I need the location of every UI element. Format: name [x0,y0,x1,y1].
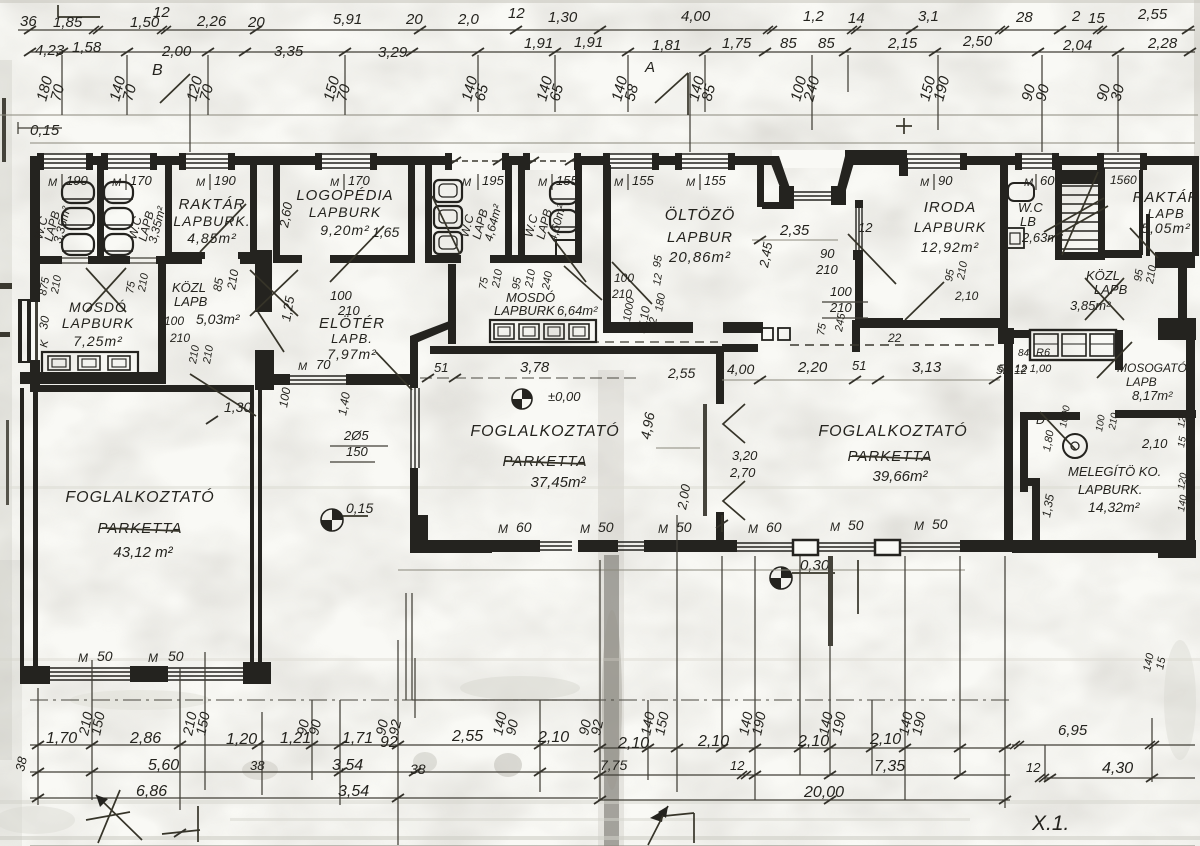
MELEGITO boiler circle [1063,434,1087,458]
kitchen counter with 3 glazed boxes [1030,330,1116,360]
left room south windows M50 [50,667,130,669]
top vertical extension lines [61,55,63,115]
svg-text:2,20: 2,20 [797,359,828,376]
row1 partition LOGOPEDIA west [273,165,280,260]
stair break diagonals [1048,206,1108,240]
door swing RAKTAR [200,204,246,252]
svg-text:60: 60 [766,519,782,535]
row1 partition WC2/RAKTAR [165,165,172,263]
svg-text:85: 85 [818,35,835,52]
svg-text:FOGLALKOZTATÓ: FOGLALKOZTATÓ [470,421,619,440]
southwest corner block [20,666,50,684]
svg-text:90: 90 [820,246,835,261]
MELEGITO west wall [1020,412,1028,492]
svg-text:2,55: 2,55 [1137,6,1168,23]
svg-text:5K 12: 5K 12 [996,363,1028,377]
radiator boxes near entrance [762,328,773,340]
svg-text:1,91: 1,91 [524,35,553,52]
door swing entrance bay [848,234,896,284]
door swing LOGOPEDIA [330,226,384,282]
row A right 6,95 [1012,744,1195,746]
row1 partition WC3 west [425,165,432,260]
svg-text:2,63m²: 2,63m² [1021,230,1063,245]
svg-text:12: 12 [651,272,665,286]
door sill lines WC1 WC2 [62,257,88,259]
svg-text:FOGLALKOZTATÓ: FOGLALKOZTATÓ [818,421,967,440]
accordion door chevron 1 [723,404,745,443]
svg-text:M: M [580,522,590,536]
svg-text:KÖZL: KÖZL [172,280,206,295]
svg-text:4,85m²: 4,85m² [187,230,237,246]
svg-text:LAPBURK: LAPBURK [309,204,381,220]
row1 partition WC4 east [575,165,582,260]
east outer wall lower [1186,338,1195,546]
IRODA east wall [1000,165,1008,340]
svg-text:6,95: 6,95 [1058,722,1088,739]
svg-text:RAKTÁR: RAKTÁR [179,196,246,213]
svg-text:M: M [830,520,840,534]
svg-text:6,64m²: 6,64m² [557,303,598,318]
svg-text:30: 30 [36,315,52,331]
svg-text:M: M [462,177,472,189]
stair bottom wall [1055,252,1105,260]
svg-text:1,85: 1,85 [53,14,83,31]
svg-text:92: 92 [380,734,398,751]
stair east wall [1098,168,1105,258]
svg-text:4,00: 4,00 [681,8,711,25]
OLTOZO east wall [757,165,764,207]
section mark B with diagonal [160,74,190,103]
left room north wall [38,385,254,392]
wall under WC rooms [30,256,62,264]
svg-text:5,60: 5,60 [148,757,179,774]
row1 partition LOGOPEDIA east [408,165,415,260]
svg-text:2,26: 2,26 [196,13,227,30]
bottom center guide arrow L-shape [654,813,694,817]
entrance bay right slant wall [837,156,856,190]
scan artifact gray vertical fold streak [598,370,624,846]
svg-text:12: 12 [508,5,525,22]
svg-text:M: M [48,177,58,189]
svg-text:1,75: 1,75 [722,35,752,52]
svg-text:LOGOPÉDIA: LOGOPÉDIA [296,187,393,204]
courtyard line from left room to dim area [412,699,600,701]
row1 partition WC3/WC4 [505,165,512,260]
svg-text:M: M [538,177,548,189]
middle room NW diagonal wall [410,320,454,343]
east outer wall mid [1178,266,1187,324]
svg-text:210: 210 [815,262,838,277]
south band windows [538,541,572,543]
svg-text:X.1.: X.1. [1031,812,1069,835]
svg-text:7,25m²: 7,25m² [73,333,123,349]
svg-text:20: 20 [405,11,423,28]
svg-text:M: M [298,361,308,373]
WC3 toilets [434,180,462,202]
top wall window openings (punch white) [44,153,86,170]
bottom dash-dot line upper [30,699,1010,701]
svg-text:3,13: 3,13 [912,359,942,376]
svg-text:±0,00: ±0,00 [548,389,581,404]
svg-text:90: 90 [938,173,953,188]
svg-text:3,20: 3,20 [732,448,758,463]
svg-text:M: M [148,651,158,665]
svg-text:15: 15 [1088,10,1105,27]
svg-text:43,12 m²: 43,12 m² [113,544,173,561]
door swing ELOTER to left room [190,374,256,416]
svg-text:38: 38 [410,761,426,777]
middle room east wall lower [716,512,724,542]
svg-text:20,86m²: 20,86m² [668,249,731,266]
svg-text:210: 210 [337,303,360,318]
svg-text:2,28: 2,28 [1147,35,1178,52]
svg-text:2,10: 2,10 [954,289,979,303]
svg-text:4,23: 4,23 [35,42,65,59]
svg-text:20: 20 [247,14,265,31]
svg-text:170: 170 [130,173,152,188]
MOSDO-left east wall [158,264,166,382]
door swing MELEGITO [1040,412,1076,450]
svg-text:1,58: 1,58 [72,39,102,56]
right raktar west wall [1139,170,1143,255]
scan artifact left margin shade [0,60,12,760]
svg-text:2,55: 2,55 [451,728,483,745]
KOZL south pillar wall [255,250,272,312]
svg-text:100: 100 [614,271,634,285]
svg-text:A: A [644,59,655,76]
top dim chain row 2 line [30,51,1195,53]
top-left bracket mark [58,16,100,18]
svg-text:M: M [196,177,206,189]
left room east wall double [250,385,254,673]
entrance bay left slant wall [768,156,790,190]
svg-text:50: 50 [168,648,184,664]
svg-text:LAPBURK: LAPBURK [62,315,134,331]
svg-text:60: 60 [1040,173,1055,188]
svg-text:2,70: 2,70 [729,465,756,480]
WC-LB sink [1008,183,1034,201]
row C ticks [32,794,44,802]
entrance bay recess gap [772,150,846,168]
west wall window (K30) [30,302,40,360]
bottom center guide arrow diagonal [648,806,668,845]
WC4 sink box [556,240,580,256]
svg-text:D: D [1036,413,1045,427]
right wing: counter wall room divider [1012,330,1030,338]
middle room east wall upper [716,346,724,404]
svg-text:LAPBURK.: LAPBURK. [173,213,250,229]
left margin dash marks [0,283,12,289]
middle room dim line 3,78 [420,377,640,379]
svg-text:100: 100 [830,284,852,299]
svg-text:5,03m²: 5,03m² [196,311,241,327]
svg-text:3,54: 3,54 [338,783,369,800]
east outer wall upper [1192,165,1199,256]
MOSDO-mid sink counter [490,320,596,342]
svg-text:3,1: 3,1 [918,8,939,25]
ELOTER west pillar lower [255,350,274,390]
svg-text:R6: R6 [1036,347,1051,359]
corridor wall below stair [1100,250,1142,258]
svg-text:ÖLTÖZÖ: ÖLTÖZÖ [665,206,736,224]
row1 partition WC1/WC2 [97,165,104,263]
svg-text:3,35: 3,35 [274,43,304,60]
svg-text:LAPBURK: LAPBURK [914,219,986,235]
top row2 ticks [24,48,36,56]
svg-text:0,15: 0,15 [346,500,373,516]
svg-text:M: M [914,519,924,533]
WC1 toilets [62,182,94,203]
svg-text:12: 12 [858,220,873,235]
ELOTER south window M70 [290,375,346,377]
svg-text:M: M [686,177,696,189]
WC3 WC4 bottom wall [425,255,461,263]
bottom row A ticks [32,741,44,749]
svg-text:2,0: 2,0 [457,11,480,28]
svg-text:38: 38 [250,758,265,773]
southeast corner block [1158,540,1196,558]
door swing OLTOZO [612,262,652,304]
door swing ELOTER east [376,352,412,390]
outer top wall [30,156,1199,165]
svg-text:2,10: 2,10 [537,729,569,746]
corridor dashed line east [790,344,995,346]
svg-text:3,29: 3,29 [378,44,408,61]
svg-text:4,00: 4,00 [727,361,754,377]
svg-text:5,91: 5,91 [333,11,362,28]
svg-text:100: 100 [164,314,184,328]
stair landing dark band [1062,170,1098,184]
svg-text:LAPBURK.: LAPBURK. [1078,482,1142,497]
door swing X WC2 area [250,270,298,316]
svg-text:1,81: 1,81 [652,37,681,54]
svg-text:20,00: 20,00 [803,784,844,801]
entrance bay right pier [831,186,846,205]
south wall band of middle and right rooms [428,540,540,552]
svg-text:50: 50 [932,516,948,532]
svg-text:LB: LB [1020,214,1036,229]
svg-text:50: 50 [598,519,614,535]
dim line right room top [722,379,1000,381]
WC-LB / stair partition [1055,165,1062,260]
left room south wall blocks [130,666,168,682]
bottom dim row B line [30,771,598,773]
corridor dashed line west [590,341,718,343]
svg-text:9,20m²: 9,20m² [320,222,370,238]
svg-text:190: 190 [66,173,88,188]
svg-text:2,10: 2,10 [797,733,829,750]
MOSDO-mid west wall [448,264,456,344]
door swing MOSDO-mid [564,266,602,300]
door swing X WC1-MOSDO [86,268,126,312]
svg-text:6,86: 6,86 [136,783,167,800]
svg-text:IRODA: IRODA [924,199,977,216]
svg-text:M: M [748,522,758,536]
svg-text:50: 50 [97,648,113,664]
east wall step block 2 [1158,318,1196,340]
svg-text:12,92m²: 12,92m² [921,239,980,255]
svg-text:M: M [498,522,508,536]
south band window mullion white blocks [793,540,818,555]
scan artifact bottom streaks [0,800,1200,804]
plus mark right [896,125,912,127]
svg-text:100: 100 [330,288,352,303]
courtyard east vertical [828,556,833,646]
svg-text:2,50: 2,50 [962,33,993,50]
svg-text:1,21: 1,21 [280,730,311,747]
faint bottom rules [30,845,1195,846]
svg-text:LAPBURK: LAPBURK [494,303,556,318]
svg-text:170: 170 [348,173,370,188]
svg-text:B: B [152,62,163,79]
south wall right wing [1012,540,1162,553]
svg-text:RAKTÁR: RAKTÁR [1133,189,1200,206]
middle room SW corner [410,515,492,553]
WC4 toilets [550,182,578,204]
svg-text:M: M [658,522,668,536]
svg-text:7,97m²: 7,97m² [327,346,377,362]
svg-text:7,75: 7,75 [600,757,627,773]
svg-text:LAPB: LAPB [174,294,208,309]
right room north wall step vertical [852,320,860,352]
svg-text:51: 51 [434,360,448,375]
svg-text:LAPB.: LAPB. [331,331,373,346]
svg-text:36: 36 [20,13,37,30]
north wall pillar at IRODA east [998,328,1014,344]
MOSDO-left south wall [20,372,166,384]
svg-text:MELEGÍTÖ KO.: MELEGÍTÖ KO. [1068,464,1161,479]
svg-text:12: 12 [730,758,745,773]
extension line under 0,30 mark [857,560,859,614]
right room north wall west part [722,344,758,352]
middle room west wall upper [410,336,418,388]
svg-text:14: 14 [848,10,865,27]
top wall dashed openings (doors M195 M155) [452,153,502,170]
svg-text:M: M [920,177,930,189]
IRODA south wall [855,318,903,326]
svg-text:70: 70 [316,357,331,372]
right room east wall [1004,328,1013,552]
entrance bay recess window [794,191,832,193]
middle room west wall lower [410,468,418,518]
svg-text:37,45m²: 37,45m² [530,474,586,491]
MOSOGATO west wall [1115,330,1123,370]
svg-text:2,00: 2,00 [161,43,192,60]
entrance bay left pier [779,186,794,205]
svg-text:7,35: 7,35 [874,758,905,775]
svg-text:1,70: 1,70 [46,730,77,747]
bottom dim row A line [30,744,598,746]
svg-text:LAPB: LAPB [1147,206,1184,221]
elevation mark 0,30 below windows [770,567,792,589]
bottom extension verticals [37,688,39,805]
bottom dim row C line [30,797,598,799]
svg-text:2: 2 [1071,8,1081,25]
west outer wall upper [30,156,40,392]
svg-text:M: M [78,651,88,665]
MOSOGATO south / MELEGITO north wall [1115,410,1196,418]
entrance bay lower stub wall [762,202,794,209]
elevation mark 0,00 middle room [512,389,532,409]
svg-text:1,20: 1,20 [226,731,257,748]
WC-LB toilet box [1006,228,1024,248]
elevation tick mark bottom [197,806,199,842]
svg-text:3,54: 3,54 [332,757,363,774]
svg-text:1,91: 1,91 [574,34,603,51]
top row1 ticks [24,26,36,34]
entrance step wall right of bay [845,150,907,160]
MOSDO-left sink counter [42,352,138,374]
svg-text:LAPBUR: LAPBUR [667,229,733,246]
top faint rule line [0,114,1198,116]
svg-text:1,2: 1,2 [803,8,825,25]
door swing ELOTER-KOZL [258,312,284,352]
right raktar inner step wall [1146,214,1150,256]
svg-text:MOSOGATÓ: MOSOGATÓ [1117,360,1187,375]
svg-text:0,15: 0,15 [30,122,60,139]
svg-text:LAPB: LAPB [1094,282,1128,297]
LOGOPEDIA bottom wall [273,255,302,263]
left margin dark line [2,98,6,162]
svg-text:M: M [614,177,624,189]
MOSDO-mid south wall / middle room north wall [430,346,722,354]
door swing WC3 [432,196,460,254]
row1 partition RAKTAR east [250,165,257,257]
scan artifact right edge [1194,0,1200,160]
WC2 toilets [104,182,133,203]
svg-text:85: 85 [780,35,797,52]
svg-text:2,04: 2,04 [1062,37,1092,54]
svg-text:12: 12 [1026,760,1041,775]
right room north wall east part [860,320,1002,328]
svg-text:W.C: W.C [1018,200,1043,215]
small arrow above middle pillar [721,515,723,532]
svg-text:2,10: 2,10 [869,731,901,748]
svg-text:1560: 1560 [1110,173,1137,187]
svg-text:5,05m²: 5,05m² [1141,220,1191,236]
svg-text:3,85m²: 3,85m² [1070,298,1111,313]
svg-text:195: 195 [482,173,504,188]
svg-text:28: 28 [1015,9,1033,26]
svg-text:50: 50 [848,517,864,533]
svg-text:KÖZL: KÖZL [1086,268,1120,283]
scan blotch spots [460,676,580,700]
svg-text:2Ø5: 2Ø5 [343,428,369,443]
OLTOZO south wall [603,322,693,333]
row B ticks [32,768,44,776]
svg-text:2,86: 2,86 [129,730,161,747]
scan artifact left lower band [0,560,22,846]
door swing WC4 [548,232,586,282]
RAKTAR bottom wall [165,252,205,259]
section mark A with diagonal [655,73,688,103]
svg-text:39,66m²: 39,66m² [872,468,928,485]
svg-text:LAPB: LAPB [1126,375,1157,389]
east wall step block 1 [1155,252,1195,268]
svg-text:84: 84 [1018,348,1030,359]
svg-text:2,35: 2,35 [779,222,810,239]
top dim chain row 1 line [18,29,1195,31]
svg-text:155: 155 [632,173,654,188]
svg-text:12: 12 [646,316,660,330]
IRODA west wall with window [855,200,863,208]
svg-text:50: 50 [676,519,692,535]
svg-text:MOSDÓ: MOSDÓ [69,299,127,315]
north arrow cross bottom-left [96,795,142,840]
svg-text:1,30: 1,30 [224,399,251,415]
svg-text:2,15: 2,15 [887,35,918,52]
door swing right raktar [1130,228,1158,258]
